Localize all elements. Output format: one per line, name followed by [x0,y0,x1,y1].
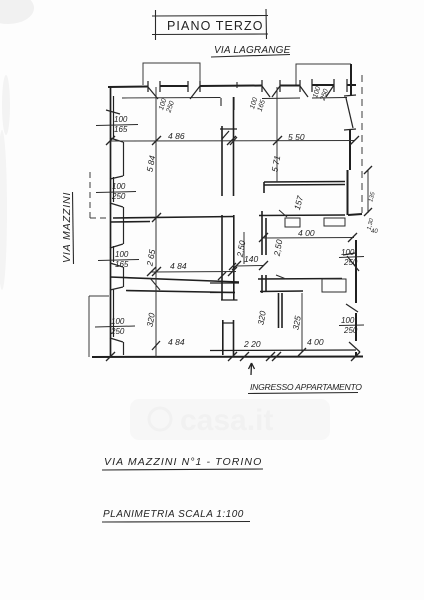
svg-text:4 00: 4 00 [298,228,315,238]
svg-text:4 86: 4 86 [168,131,185,141]
svg-text:100: 100 [341,248,355,257]
svg-text:100: 100 [115,250,129,259]
svg-text:100: 100 [341,316,355,325]
svg-text:40: 40 [371,229,378,235]
svg-text:140: 140 [244,254,258,264]
svg-text:PIANO TERZO: PIANO TERZO [167,19,264,33]
svg-text:INGRESSO APPARTAMENTO: INGRESSO APPARTAMENTO [250,382,362,392]
svg-text:100: 100 [111,317,125,326]
svg-text:VIA MAZZINI N°1 - TORINO: VIA MAZZINI N°1 - TORINO [104,456,262,468]
svg-text:250: 250 [111,192,126,201]
svg-text:4 00: 4 00 [307,337,324,347]
svg-text:PLANIMETRIA SCALA 1:100: PLANIMETRIA SCALA 1:100 [103,509,244,520]
svg-text:4 84: 4 84 [170,261,187,271]
svg-text:VIA MAZZINI: VIA MAZZINI [61,192,73,263]
svg-text:250: 250 [343,326,358,335]
svg-text:100: 100 [114,115,128,124]
svg-text:250: 250 [343,258,358,267]
svg-text:165: 165 [115,260,129,269]
svg-text:5 50: 5 50 [288,132,305,142]
svg-text:165: 165 [114,125,128,134]
svg-text:4 84: 4 84 [168,337,185,347]
svg-text:2 20: 2 20 [243,339,261,349]
svg-text:casa.it: casa.it [180,404,273,437]
svg-text:100: 100 [112,182,126,191]
svg-text:250: 250 [110,327,125,336]
